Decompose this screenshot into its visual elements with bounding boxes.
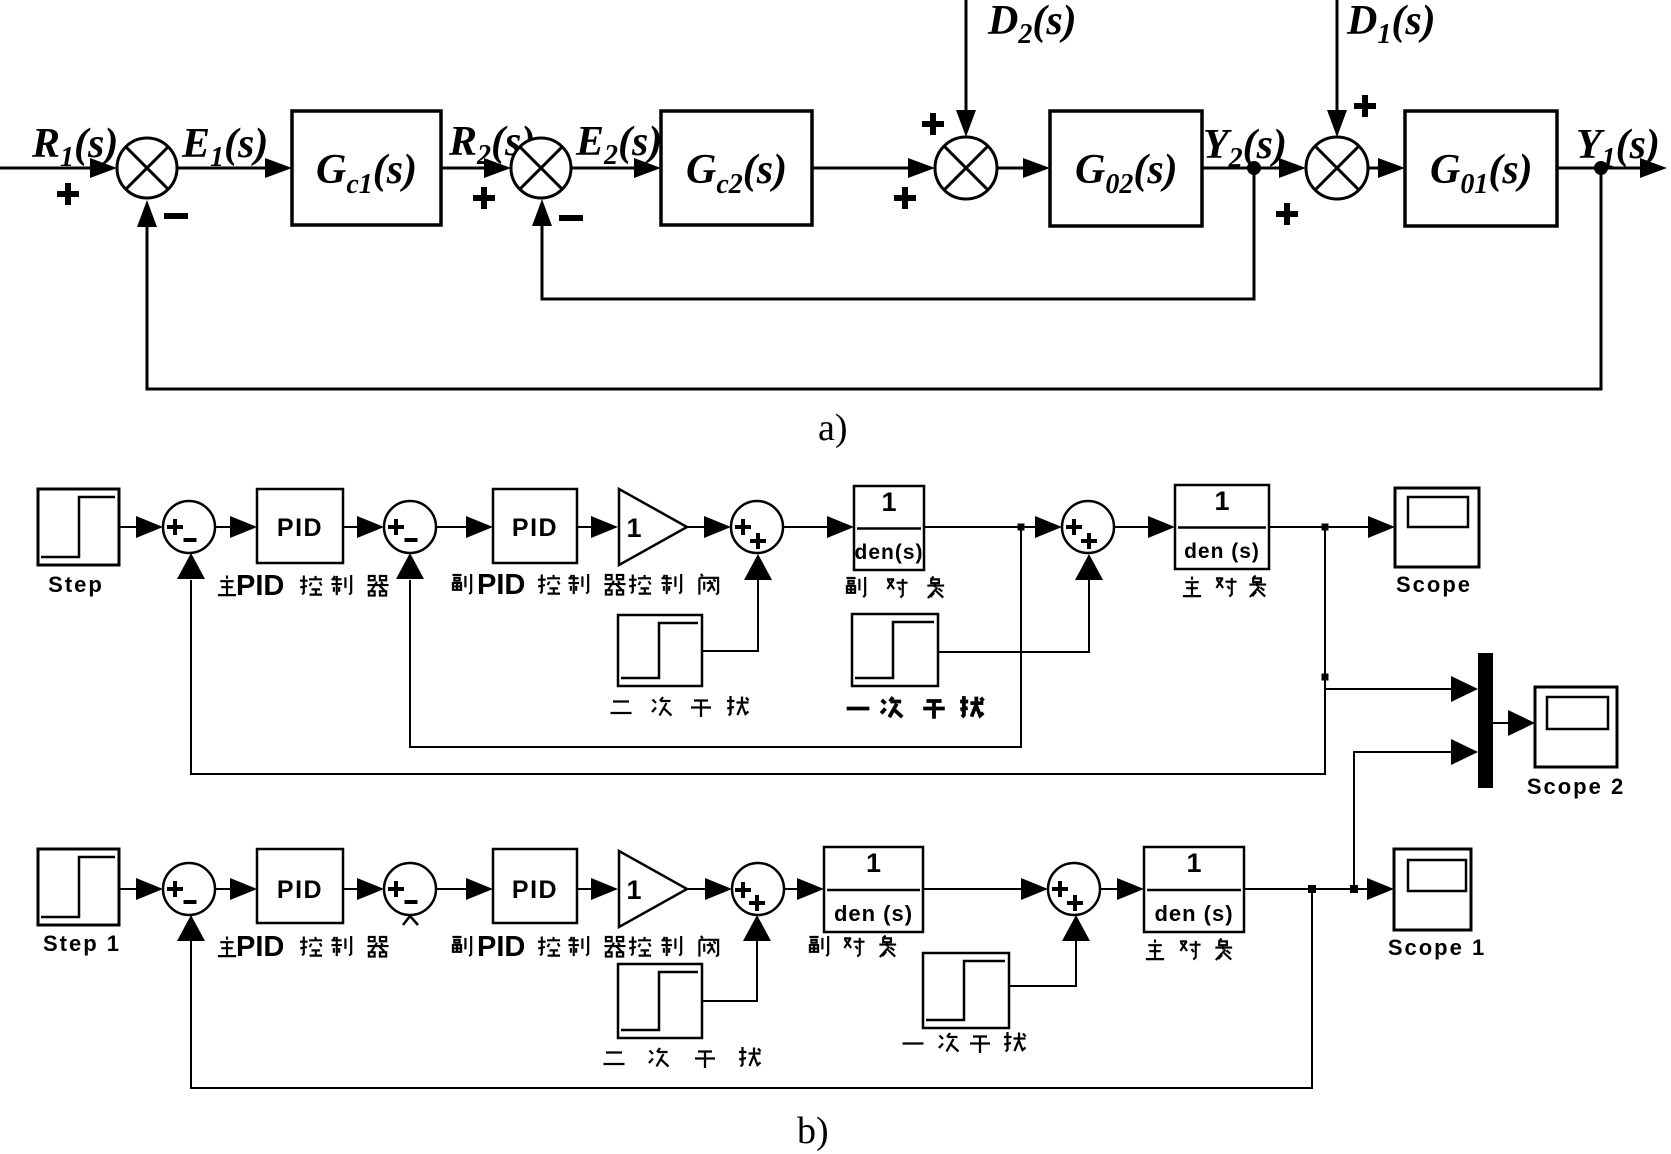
block transfer fn zhuduixiang row2 bbox=[1144, 847, 1244, 932]
wire D2 disturbance bbox=[965, 0, 968, 110]
svg-text:1: 1 bbox=[626, 513, 641, 543]
part b: simulink cascade model bbox=[38, 485, 1625, 1152]
junction node output row1 bbox=[1322, 524, 1329, 531]
wire sum1 to PID1 row2 bbox=[215, 888, 230, 890]
block step yi ci gan rao row1 bbox=[852, 614, 938, 686]
wire zhuduixiang to Scope1 with junctions bbox=[1244, 888, 1367, 890]
label fu PID controller valve row2 bbox=[452, 936, 471, 956]
svg-text:PID: PID bbox=[277, 514, 323, 542]
plus sign at SA2 bbox=[473, 195, 495, 201]
wire outer feedback row1 bbox=[191, 527, 1325, 774]
block transfer fn fuduixiang row2 bbox=[824, 847, 923, 932]
junction node feedback row2 bbox=[1308, 885, 1316, 893]
sum junction S3 row2 bbox=[732, 863, 784, 915]
wire PID2 to gain row2 bbox=[577, 888, 591, 890]
wire PID2 to gain bbox=[577, 526, 591, 528]
svg-text:Step: Step bbox=[48, 572, 104, 597]
block Scope 2 bbox=[1535, 687, 1617, 767]
wire sum4 to zhuduixiang bbox=[1114, 526, 1148, 528]
wire Y2 bbox=[1202, 167, 1281, 170]
wire Gc2 to SA3 bbox=[812, 167, 908, 170]
label zhu PID controller row1 bbox=[218, 575, 236, 595]
plus sign at SA4 left bbox=[1276, 211, 1298, 217]
svg-text:PID: PID bbox=[277, 876, 323, 904]
svg-text:Scope: Scope bbox=[1396, 572, 1472, 597]
svg-text:PID: PID bbox=[236, 931, 284, 963]
label fu dui xiang row1 bbox=[846, 577, 865, 597]
sum junction S2 row1 bbox=[384, 501, 436, 553]
plus sign at SA3 left bbox=[894, 195, 916, 201]
block PID master row1 bbox=[257, 489, 343, 563]
junction node on feedback to mux bbox=[1322, 674, 1329, 681]
wire erciganrao to sum3 bbox=[702, 580, 758, 651]
wire yiciganrao to sum4 bbox=[938, 580, 1089, 652]
plus sign at SA4 top bbox=[1354, 103, 1376, 109]
minus sign at SA1 bbox=[164, 213, 188, 219]
label fu PID controller valve row1 bbox=[452, 574, 471, 594]
sum junction S2 row2 bbox=[384, 863, 436, 915]
gain block 1 row2 bbox=[619, 851, 687, 927]
svg-text:PID: PID bbox=[512, 514, 558, 542]
label zhu dui xiang row1 bbox=[1183, 576, 1201, 596]
svg-text:E2(s): E2(s) bbox=[575, 119, 662, 171]
svg-text:Y2(s): Y2(s) bbox=[1203, 122, 1287, 174]
block G01 bbox=[1405, 111, 1557, 226]
svg-text:Scope 1: Scope 1 bbox=[1388, 935, 1486, 960]
block Gc1 bbox=[292, 111, 441, 225]
svg-text:D2(s): D2(s) bbox=[987, 0, 1077, 50]
summing junction SA1 bbox=[117, 138, 177, 198]
sum junction S4 row1 bbox=[1062, 501, 1114, 553]
wire fuduixiang to sum4 with junction bbox=[924, 526, 1035, 528]
wire PID1 to sum2 row2 bbox=[343, 888, 357, 890]
block Scope 1 bbox=[1394, 849, 1471, 930]
node Y2 bbox=[1247, 161, 1261, 175]
svg-text:R1(s): R1(s) bbox=[31, 121, 118, 173]
wire gain to sum3 row2 bbox=[687, 888, 706, 890]
wire R2 bbox=[441, 167, 484, 170]
wire SA4 to G01 bbox=[1368, 167, 1378, 170]
label zhu dui xiang row2 bbox=[1146, 939, 1164, 959]
svg-text:E1(s): E1(s) bbox=[181, 121, 268, 173]
minus sign at SA2 bbox=[559, 215, 583, 221]
svg-text:a): a) bbox=[818, 407, 848, 449]
wire erciganrao to sum3 row2 bbox=[702, 941, 757, 1001]
svg-text:PID: PID bbox=[512, 876, 558, 904]
svg-text:Step 1: Step 1 bbox=[43, 931, 121, 956]
wire sum1 to PID1 bbox=[215, 526, 230, 528]
wire row2 output up to mux input 2 bbox=[1354, 752, 1451, 888]
svg-text:1: 1 bbox=[1214, 486, 1229, 516]
label yi ci gan rao row1 bold bbox=[847, 708, 870, 710]
svg-text:1: 1 bbox=[626, 875, 641, 905]
sum junction S4 row2 bbox=[1048, 863, 1100, 915]
summing junction SA2 bbox=[511, 138, 571, 198]
label zhu PID controller row2 bbox=[218, 936, 236, 956]
caret mark under sum2 row2 bbox=[403, 916, 418, 925]
block Step bbox=[38, 489, 119, 565]
wire E2 bbox=[571, 167, 634, 170]
wire outer feedback row2 bbox=[191, 889, 1312, 1088]
plus sign at SA3 top bbox=[922, 121, 944, 127]
wire Step1 to sum1 row2 bbox=[119, 888, 136, 890]
block G02 bbox=[1050, 111, 1202, 226]
wire sum4 to zhuduixiang row2 bbox=[1100, 888, 1117, 890]
wire mux to Scope 2 bbox=[1493, 722, 1508, 724]
svg-text:PID: PID bbox=[477, 931, 525, 963]
svg-text:den(s): den(s) bbox=[855, 541, 924, 564]
svg-text:b): b) bbox=[797, 1110, 829, 1152]
wire outer feedback Y1 to SA1 bbox=[147, 168, 1601, 389]
wire gain to sum3 bbox=[687, 526, 705, 528]
block transfer fn zhuduixiang row1 bbox=[1175, 485, 1269, 569]
sum junction S1 row1 bbox=[163, 501, 215, 553]
wire PID1 to sum2 bbox=[343, 526, 357, 528]
svg-text:den (s): den (s) bbox=[1184, 540, 1260, 563]
block step er ci gan rao row2 bbox=[618, 964, 702, 1038]
wire Y1 output bbox=[1557, 167, 1640, 170]
svg-text:1: 1 bbox=[1186, 848, 1201, 878]
wire fuduixiang to sum4 row2 bbox=[923, 888, 1021, 890]
wire D1 disturbance bbox=[1336, 0, 1339, 110]
wire sum3 to fuduixiang row2 bbox=[784, 888, 797, 890]
label fu dui xiang row2 bbox=[809, 936, 828, 956]
label er ci gan rao row2 bbox=[604, 1053, 625, 1065]
wire sum3 to fuduixiang bbox=[783, 526, 827, 528]
wire inner feedback Y2 to SA2 bbox=[542, 168, 1254, 299]
block Scope bbox=[1395, 488, 1479, 567]
junction node to mux row2 bbox=[1350, 885, 1358, 893]
svg-text:Scope 2: Scope 2 bbox=[1527, 774, 1625, 799]
plus sign at SA1 bbox=[57, 191, 79, 197]
node Y1 bbox=[1594, 161, 1608, 175]
wire R1 input bbox=[0, 167, 92, 170]
wire zhuduixiang to Scope with junction bbox=[1269, 526, 1368, 528]
gain block 1 row1 bbox=[619, 489, 687, 565]
part a: cascade control block diagram bbox=[0, 0, 1667, 449]
wire E1 bbox=[177, 167, 265, 170]
block step er ci gan rao row1 bbox=[618, 615, 702, 686]
svg-text:den (s): den (s) bbox=[834, 901, 913, 926]
block Gc2 bbox=[661, 111, 812, 225]
summing junction SA3 bbox=[935, 137, 997, 199]
sum junction S3 row1 bbox=[731, 501, 783, 553]
svg-text:den (s): den (s) bbox=[1154, 901, 1233, 926]
summing junction SA4 bbox=[1306, 137, 1368, 199]
junction node after fuduixiang row1 bbox=[1018, 524, 1025, 531]
wire yiciganrao to sum4 row2 bbox=[1009, 941, 1076, 986]
block transfer fn fuduixiang row1 bbox=[854, 486, 924, 570]
wire to mux input 1 bbox=[1325, 688, 1451, 690]
sum junction S1 row2 bbox=[163, 863, 215, 915]
block step yi ci gan rao row2 bbox=[923, 953, 1009, 1028]
block PID slave row2 bbox=[493, 849, 577, 923]
label yi ci gan rao row2 bbox=[903, 1043, 924, 1045]
svg-text:D1(s): D1(s) bbox=[1346, 0, 1436, 50]
mux block bbox=[1478, 653, 1493, 788]
svg-text:1: 1 bbox=[866, 848, 881, 878]
svg-text:PID: PID bbox=[477, 569, 525, 601]
wire Step to sum1 bbox=[119, 526, 136, 528]
wire inner feedback row1 bbox=[410, 527, 1021, 747]
block PID master row2 bbox=[257, 849, 343, 923]
svg-text:Y1(s): Y1(s) bbox=[1576, 122, 1660, 174]
wire sum2 to PID2 row2 bbox=[436, 888, 466, 890]
block Step 1 bbox=[38, 849, 119, 925]
label er ci gan rao row1 bbox=[611, 702, 632, 714]
block PID slave row1 bbox=[493, 489, 577, 563]
wire sum2 to PID2 bbox=[436, 526, 466, 528]
svg-text:1: 1 bbox=[881, 487, 896, 517]
svg-text:PID: PID bbox=[236, 570, 284, 602]
wire SA3 to G02 bbox=[997, 167, 1023, 170]
